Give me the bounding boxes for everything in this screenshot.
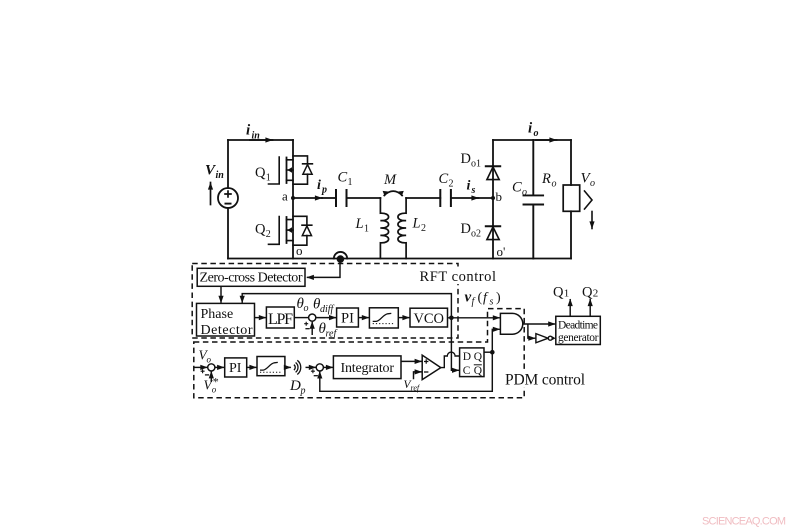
label plus minus summer1 — [201, 369, 205, 373]
svg-text:R: R — [541, 171, 551, 187]
wire comparator to D input with hop — [441, 352, 460, 367]
wire summer1 to PI — [215, 366, 224, 368]
wire Vref to comparator — [414, 372, 422, 379]
wire tap to zero-cross — [307, 259, 340, 278]
wire i_o arrow — [536, 139, 557, 141]
svg-text:o': o' — [497, 244, 506, 259]
coupling arrow M — [384, 191, 402, 195]
svg-text:1: 1 — [266, 173, 271, 184]
svg-text:D: D — [289, 378, 301, 394]
label minus in comparator — [424, 371, 428, 373]
svg-text:i: i — [467, 179, 471, 194]
wire summer2 to Integrator — [323, 366, 333, 368]
wire limiter out arrow — [285, 366, 291, 368]
block PI — [337, 308, 359, 327]
gate inverter — [536, 334, 548, 343]
junction dot VCO output — [449, 316, 454, 321]
block D flip-flop — [460, 348, 484, 377]
label - of source — [225, 203, 232, 205]
block Phase Detector — [197, 303, 255, 336]
svg-text:Deadtime: Deadtime — [558, 320, 598, 332]
diode Do2 — [486, 225, 500, 227]
wire summer to PI — [316, 317, 336, 319]
svg-text:D: D — [463, 351, 471, 363]
capacitor C1 — [336, 190, 347, 206]
svg-text:1: 1 — [364, 224, 369, 235]
svg-text:L: L — [412, 216, 421, 232]
block Integrator — [333, 356, 401, 379]
block limiter PDM — [257, 357, 285, 376]
wire PI to limiter PDM — [247, 366, 257, 368]
svg-text:SCIENCEAQ.COM: SCIENCEAQ.COM — [702, 516, 786, 528]
svg-text:b: b — [496, 189, 503, 204]
svg-text:o: o — [534, 128, 539, 139]
wire top-left rail — [228, 139, 293, 141]
label plus minus summer2 — [311, 369, 315, 373]
junction dot Q output — [490, 350, 495, 355]
svg-text:Q: Q — [474, 365, 483, 377]
svg-text:D: D — [461, 221, 471, 237]
RFT control dashed box — [192, 264, 458, 339]
wire PI to limiter — [358, 317, 369, 319]
svg-text:C: C — [439, 171, 449, 187]
block PI PDM — [225, 358, 247, 377]
wire VCO output to AND gate — [448, 317, 500, 319]
wire Vo* arrow up — [210, 371, 212, 382]
wire Q1 out arrow — [569, 299, 571, 316]
svg-text:o: o — [304, 303, 309, 314]
svg-text:i: i — [528, 121, 533, 137]
svg-text:f: f — [472, 297, 476, 308]
wire VCO feedback to phase detector — [242, 294, 451, 318]
svg-text:p: p — [300, 386, 306, 397]
block Deadtime generator — [556, 316, 601, 344]
svg-text:(: ( — [478, 291, 483, 306]
node b — [491, 196, 495, 200]
wire bottom rail — [228, 258, 571, 260]
svg-text:o: o — [522, 187, 527, 198]
wire AND output split — [523, 323, 556, 325]
wire i_p arrow a to C1 — [293, 197, 322, 199]
white mask under PDM control text — [503, 371, 587, 387]
summer theta — [309, 314, 316, 321]
svg-text:a: a — [282, 189, 288, 204]
svg-text:Integrator: Integrator — [341, 361, 395, 376]
svg-text:Q: Q — [553, 284, 564, 300]
svg-text:o1: o1 — [471, 159, 481, 170]
svg-text:p: p — [321, 185, 327, 196]
resistor Ro branch — [570, 140, 572, 185]
svg-text:Phase: Phase — [201, 307, 234, 322]
wire Q output up to AND input — [492, 329, 500, 352]
svg-text:v: v — [465, 290, 472, 306]
svg-text:C: C — [338, 170, 348, 186]
svg-text:o: o — [296, 243, 303, 258]
wire diode branch — [492, 140, 494, 259]
svg-text:Q: Q — [474, 351, 483, 363]
capacitor Co branch — [524, 140, 544, 259]
wire LPF to summer — [294, 317, 308, 319]
transistor Q1 — [269, 140, 313, 198]
svg-text:PDM control: PDM control — [505, 372, 585, 389]
summer PDM 1 — [208, 364, 215, 371]
svg-text:i: i — [317, 178, 321, 193]
arrow Vin up — [210, 183, 212, 205]
wire phase to LPF — [255, 317, 266, 319]
wire theta_ref arrow — [311, 322, 313, 335]
transistor Q2 — [269, 198, 312, 259]
svg-text:in: in — [252, 131, 261, 142]
svg-text:): ) — [496, 291, 501, 306]
block VCO — [410, 308, 448, 327]
svg-text:o2: o2 — [471, 229, 481, 240]
Vo arrow down — [591, 212, 593, 229]
svg-text:o: o — [590, 178, 595, 189]
svg-text:LPF: LPF — [268, 311, 293, 328]
diode Do1 — [486, 165, 500, 167]
wire arrow into summer2 — [306, 366, 316, 368]
svg-text:s: s — [490, 297, 494, 308]
svg-text:C: C — [512, 180, 522, 196]
summer PDM 2 — [316, 364, 323, 371]
wire VCO junction down to C input — [451, 318, 459, 371]
svg-text:1: 1 — [348, 177, 353, 188]
wire Q output — [484, 351, 492, 353]
svg-text:RFT control: RFT control — [420, 269, 497, 285]
svg-text:diff: diff — [320, 304, 335, 315]
wire Q2 out arrow — [589, 299, 591, 316]
power stage labels — [205, 121, 595, 260]
wire C1 to L1 — [347, 197, 381, 199]
svg-text:M: M — [383, 172, 397, 188]
svg-text:PI: PI — [229, 361, 242, 376]
white mask under RFT control text — [418, 267, 498, 285]
svg-text:o: o — [552, 179, 557, 190]
svg-text:in: in — [216, 170, 225, 181]
inductor L1 — [380, 198, 388, 259]
svg-text:s: s — [471, 185, 476, 196]
wire i_s arrow C2 to b — [451, 197, 479, 199]
svg-text:*: * — [213, 375, 219, 389]
svg-text:i: i — [246, 123, 251, 139]
label + of source — [224, 190, 232, 198]
wire zero-cross to phase detector — [220, 286, 222, 303]
wire left rail lower — [227, 208, 229, 259]
inductor L2 — [398, 198, 406, 259]
block Zero-cross Detector — [197, 268, 305, 286]
label plus in comparator — [424, 359, 428, 363]
wire i_in arrow on top rail — [250, 139, 273, 141]
svg-text:2: 2 — [266, 229, 271, 240]
svg-text:C: C — [463, 365, 471, 377]
gate AND — [500, 313, 522, 334]
label plus minus theta summer — [304, 322, 308, 326]
svg-text:f: f — [483, 291, 489, 306]
tap hop arc — [334, 252, 347, 259]
svg-text:generator: generator — [558, 332, 599, 344]
node a — [291, 196, 295, 200]
source Vin circle — [218, 188, 238, 208]
wire L2 to C2 — [406, 197, 440, 199]
wire PDM feedback to summer2 — [320, 352, 493, 391]
svg-text:L: L — [355, 216, 364, 232]
block limiter RFT — [369, 308, 398, 328]
svg-text:2: 2 — [593, 287, 599, 299]
svg-text:ref: ref — [326, 329, 338, 340]
block LPF — [266, 307, 294, 328]
svg-text:VCO: VCO — [414, 311, 445, 327]
wire left rail upper — [227, 140, 229, 188]
radio link arcs — [294, 360, 301, 374]
PDM control dashed box — [194, 309, 524, 398]
svg-text:D: D — [461, 151, 471, 167]
wire top-right rail — [493, 139, 571, 141]
wire Vo input PDM — [194, 366, 207, 368]
svg-text:Zero-cross Detector: Zero-cross Detector — [200, 271, 303, 286]
wire Integrator to comparator — [401, 360, 422, 362]
svg-text:PI: PI — [341, 311, 354, 327]
capacitor C2 — [440, 190, 451, 206]
junction dot tap — [337, 255, 345, 263]
Vo chevron marking — [585, 191, 593, 209]
wire limiter to VCO — [398, 317, 409, 319]
svg-text:Detector: Detector — [201, 323, 253, 338]
svg-text:Q: Q — [582, 284, 593, 300]
svg-text:2: 2 — [449, 179, 454, 190]
svg-text:o: o — [207, 355, 212, 365]
svg-text:Q: Q — [255, 165, 266, 181]
svg-text:Q: Q — [255, 222, 266, 238]
svg-text:2: 2 — [421, 223, 426, 234]
svg-text:1: 1 — [564, 287, 570, 299]
comparator triangle — [422, 355, 441, 380]
